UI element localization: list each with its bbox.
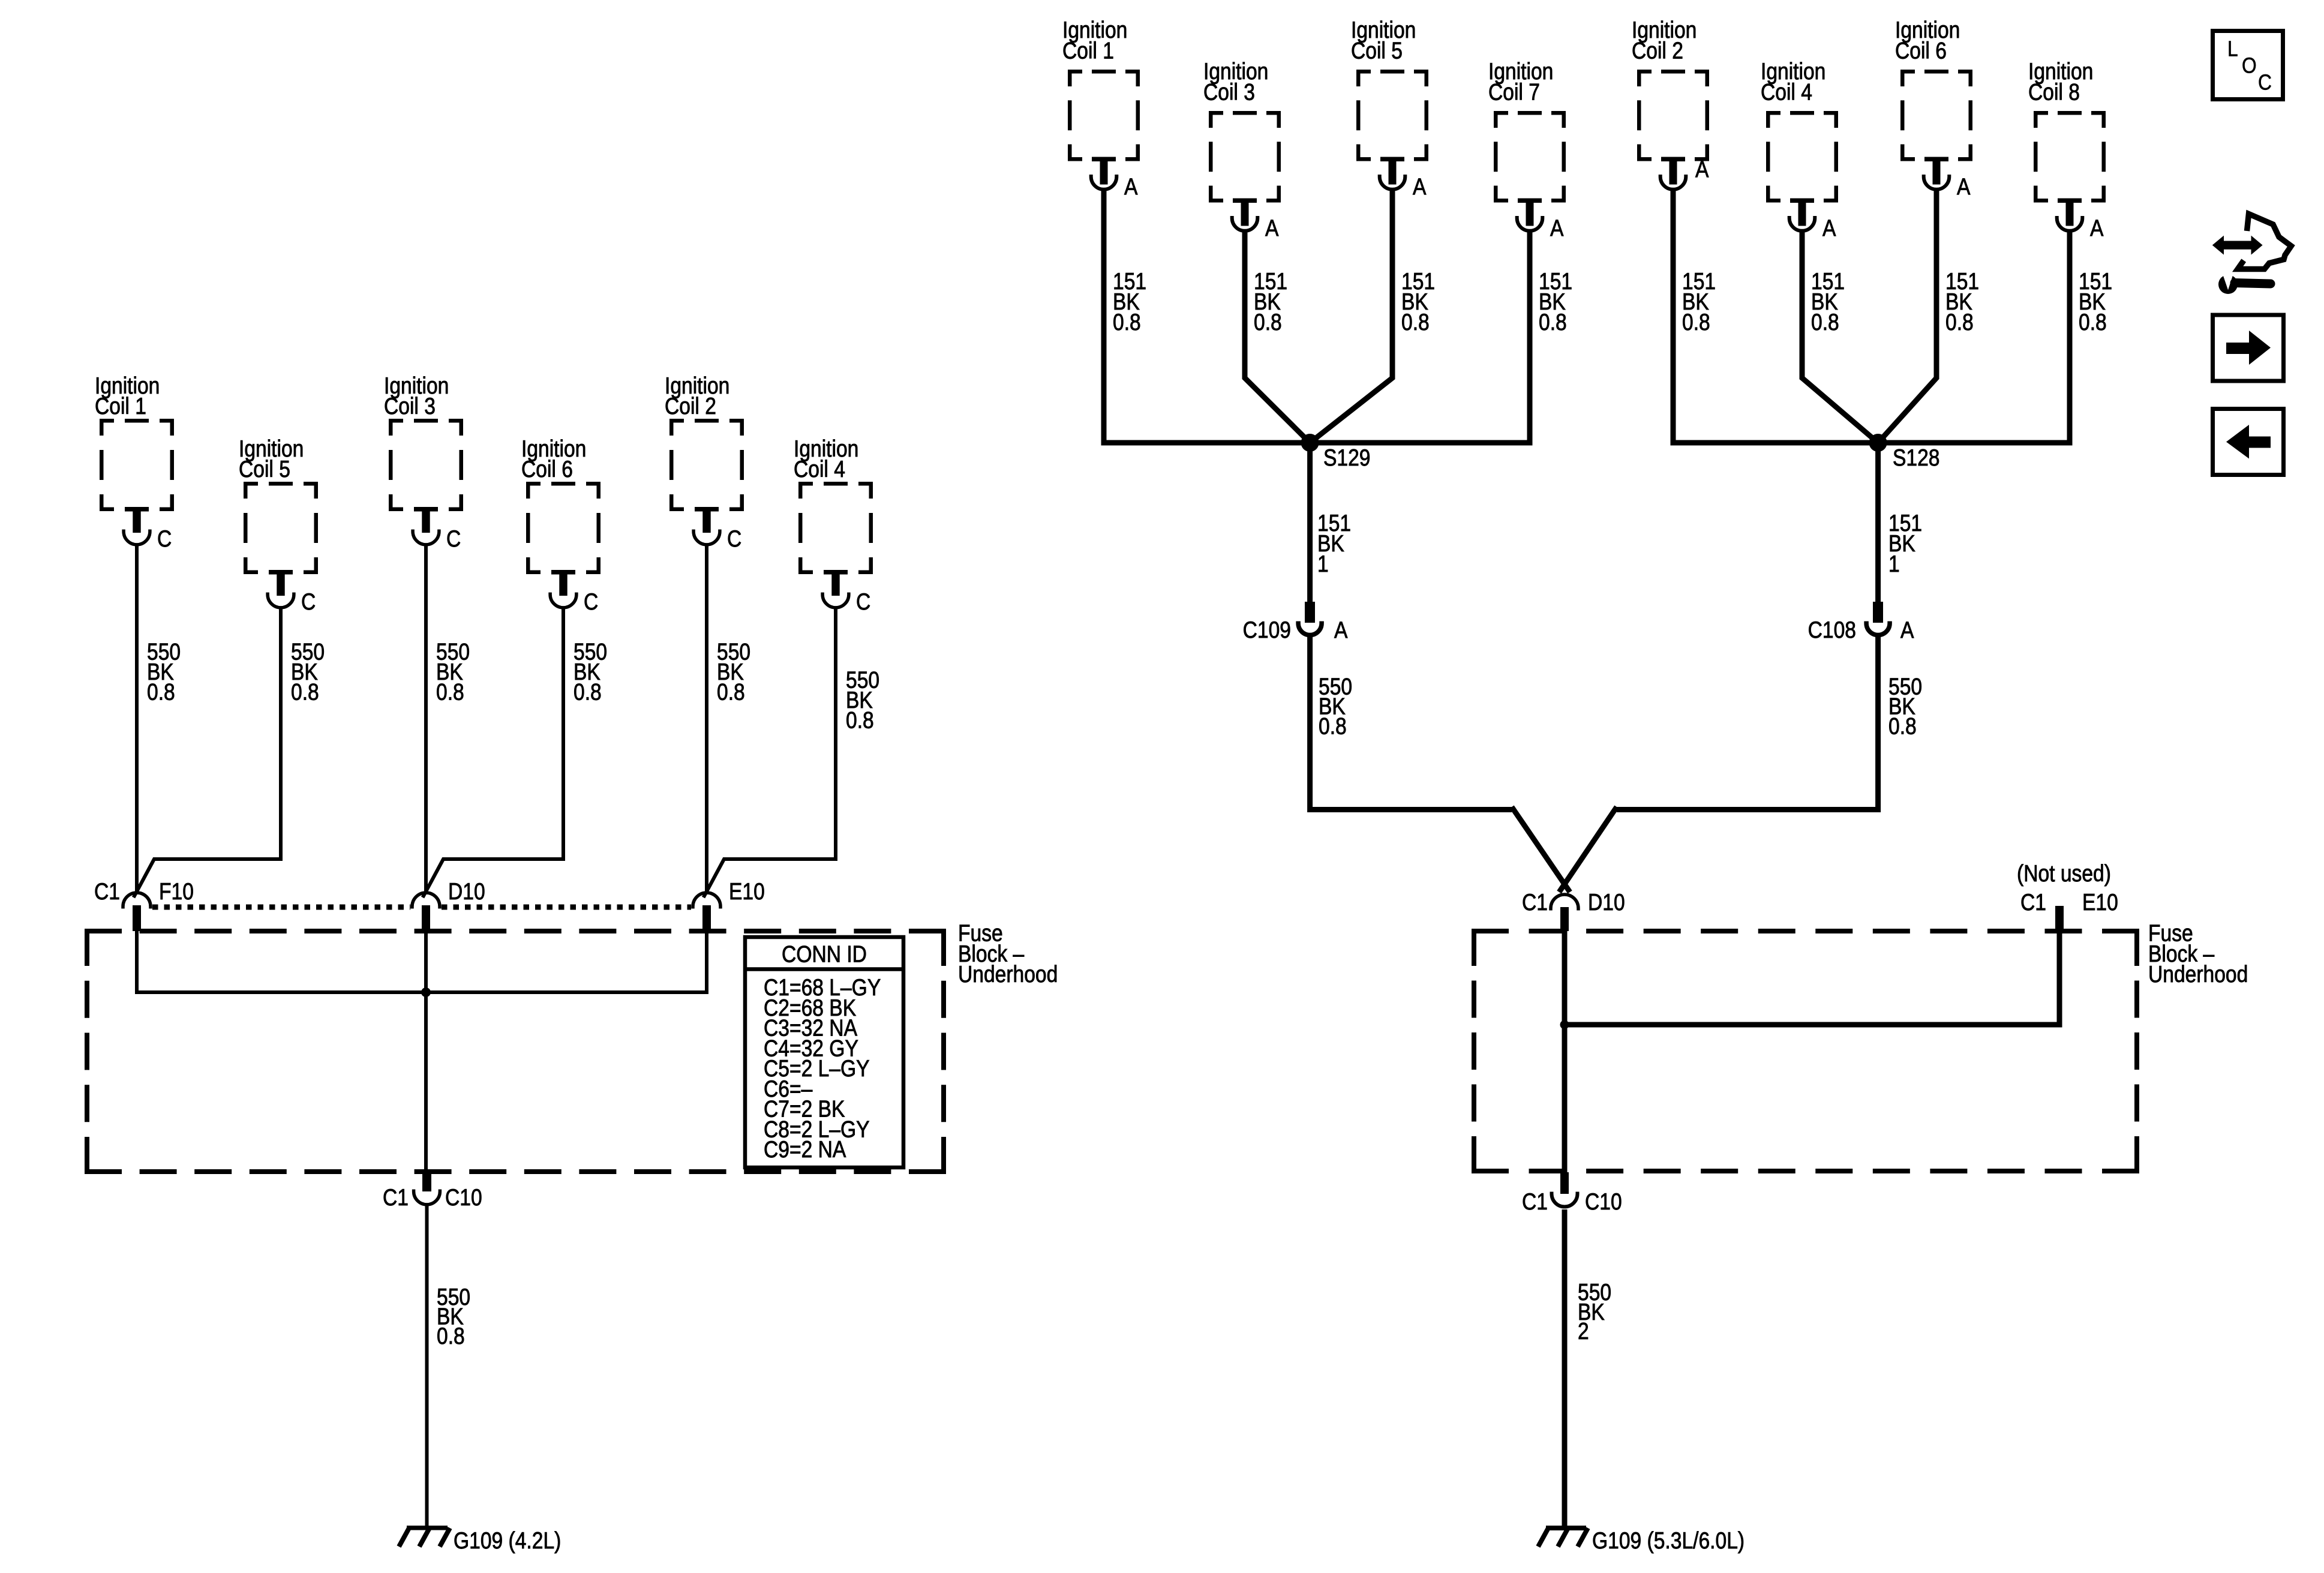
wire coil2 151 BK to S128 bus [1673, 189, 2070, 443]
svg-text:A: A [1695, 156, 1709, 182]
service icon outline [2238, 214, 2291, 269]
svg-text:D10: D10 [1588, 889, 1625, 915]
svg-text:(Not used): (Not used) [2017, 860, 2111, 887]
svg-text:C1: C1 [1522, 1188, 1548, 1215]
svg-text:Coil 4: Coil 4 [794, 456, 845, 482]
svg-text:0.8: 0.8 [574, 679, 602, 705]
wire coil6 550 BK to D10 [423, 607, 563, 897]
svg-text:Coil 6: Coil 6 [1895, 37, 1947, 64]
ignition coil 3 (V8) box [1209, 111, 1281, 203]
wire diagonal into D10 (right branch) [1559, 807, 1617, 892]
wire coil4 151 BK diagonal to S128 [1802, 230, 1878, 443]
ignition coil 6 (4.2L) terminal C [550, 593, 577, 608]
svg-text:C9=2 NA: C9=2 NA [764, 1136, 846, 1163]
ignition coil 2 (4.2L) pin [695, 507, 719, 512]
ignition coil 3 (4.2L) box [389, 419, 463, 511]
ignition coil 1 (4.2L) pin [125, 507, 149, 512]
svg-text:C: C [301, 589, 316, 615]
splice S128 [1869, 434, 1887, 452]
node E10 pin [702, 905, 711, 931]
back arrow box [2213, 409, 2284, 475]
ignition coil 2 (V8) pin [1661, 157, 1685, 162]
svg-text:S128: S128 [1893, 445, 1939, 471]
svg-text:F10: F10 [159, 878, 194, 905]
ignition coil 4 (V8) pin [1790, 199, 1814, 203]
svg-text:C: C [856, 589, 870, 615]
ignition coil 2 (V8) terminal A [1661, 175, 1686, 190]
svg-text:C108: C108 [1808, 617, 1856, 643]
svg-text:0.8: 0.8 [1539, 309, 1567, 335]
ignition coil 2 (4.2L) terminal C [693, 530, 720, 545]
svg-text:Coil 3: Coil 3 [384, 393, 436, 419]
svg-text:A: A [1265, 215, 1279, 241]
svg-text:O: O [2242, 53, 2257, 78]
svg-text:C10: C10 [445, 1184, 482, 1211]
svg-text:E10: E10 [729, 878, 765, 905]
svg-text:2: 2 [1578, 1318, 1589, 1344]
svg-text:0.8: 0.8 [1319, 713, 1347, 739]
connector C1 terminal F10 [123, 893, 151, 909]
svg-text:1: 1 [1317, 551, 1329, 577]
svg-text:G109 (5.3L/6.0L): G109 (5.3L/6.0L) [1592, 1527, 1744, 1554]
ignition coil 4 (V8) terminal A [1789, 216, 1815, 231]
svg-text:A: A [1413, 173, 1427, 200]
svg-text:Underhood: Underhood [2148, 961, 2248, 987]
svg-text:C1: C1 [383, 1184, 409, 1211]
wire coil5 550 BK to F10 [134, 607, 281, 897]
wire 151 BK 1 from S129 to C109 [1307, 443, 1313, 602]
svg-text:0.8: 0.8 [147, 679, 175, 705]
svg-text:Coil 3: Coil 3 [1203, 79, 1255, 105]
wire diagonal into D10 (left branch) [1512, 807, 1570, 892]
svg-text:0.8: 0.8 [437, 1323, 465, 1349]
ignition coil 6 (V8) pin [1924, 157, 1948, 162]
svg-text:0.8: 0.8 [2079, 309, 2107, 335]
ignition coil 1 (4.2L) terminal C [124, 530, 150, 545]
connector face dotted line [152, 905, 410, 910]
wire coil2 550 BK to E10 [705, 544, 708, 893]
ignition coil 7 (V8) pin [1518, 199, 1542, 203]
connector C1 terminal D10 [412, 893, 440, 909]
svg-text:C: C [2258, 70, 2272, 95]
svg-text:A: A [1822, 215, 1836, 241]
svg-text:Coil 1: Coil 1 [1062, 37, 1114, 64]
connector C1 terminal E10 [693, 893, 720, 909]
forward arrow [2226, 331, 2271, 365]
ignition coil 4 (4.2L) terminal C [822, 593, 849, 608]
svg-text:CONN ID: CONN ID [782, 941, 867, 967]
svg-text:0.8: 0.8 [1401, 309, 1430, 335]
ignition coil 5 (4.2L) terminal C [268, 593, 294, 608]
svg-text:Coil 2: Coil 2 [1632, 37, 1683, 64]
ignition coil 3 (V8) terminal A [1232, 216, 1258, 231]
wire coil1 550 BK to F10 [135, 544, 139, 893]
svg-text:C1: C1 [1522, 889, 1548, 915]
wire coil3 151 BK diagonal to S129 [1245, 230, 1310, 443]
ignition coil 6 (V8) box [1900, 70, 1972, 161]
svg-text:A: A [1334, 617, 1348, 643]
connector C1 terminal C10 (left) [422, 1172, 431, 1191]
svg-text:0.8: 0.8 [846, 707, 874, 733]
ignition coil 3 (4.2L) pin [414, 507, 438, 512]
svg-text:A: A [1124, 173, 1138, 200]
node F10 pin [133, 905, 141, 931]
connector C109 terminal A [1305, 602, 1315, 623]
ignition coil 1 (V8) box [1068, 70, 1140, 161]
ignition coil 5 (4.2L) pin [269, 570, 293, 575]
ignition coil 7 (V8) terminal A [1517, 216, 1543, 231]
ignition coil 5 (V8) box [1356, 70, 1428, 161]
svg-text:0.8: 0.8 [1888, 713, 1917, 739]
node D10 pin [422, 905, 430, 931]
ignition coil 2 (4.2L) box [669, 419, 744, 511]
svg-text:0.8: 0.8 [1113, 309, 1141, 335]
wire bus to E10 riser [1565, 931, 2059, 1025]
ignition coil 5 (V8) pin [1380, 157, 1404, 162]
svg-text:Coil 1: Coil 1 [95, 393, 146, 419]
svg-text:S129: S129 [1323, 445, 1370, 471]
ignition coil 3 (4.2L) terminal C [413, 530, 439, 545]
svg-text:0.8: 0.8 [1945, 309, 1974, 335]
ground G109 (5.3L/6.0L) [1546, 1526, 1586, 1530]
ignition coil 5 (V8) terminal A [1380, 175, 1406, 190]
junction dot right fuse [1560, 1020, 1569, 1029]
svg-text:0.8: 0.8 [717, 679, 745, 705]
svg-text:Coil 7: Coil 7 [1488, 79, 1540, 105]
wire coil5 151 BK diagonal to S129 [1310, 189, 1392, 443]
forward arrow box [2213, 315, 2284, 381]
wire F10 to ground bus to E10 inside fuse block [137, 931, 707, 992]
service icon wrench [2218, 275, 2238, 294]
ignition coil 8 (V8) terminal A [2057, 216, 2083, 231]
fuse block - underhood (left) dashed box [85, 929, 946, 1174]
wire 550 BK 0.8 from C108 [1617, 637, 1878, 810]
svg-text:Coil 6: Coil 6 [521, 456, 573, 482]
ignition coil 8 (V8) box [2034, 111, 2106, 203]
back arrow [2226, 425, 2271, 459]
svg-text:L: L [2227, 37, 2238, 61]
svg-text:0.8: 0.8 [1254, 309, 1282, 335]
svg-text:A: A [1550, 215, 1564, 241]
ignition coil 7 (V8) box [1494, 111, 1566, 203]
svg-text:C: C [446, 526, 461, 552]
wire 550 BK 0.8 from C109 [1310, 637, 1512, 810]
CONN ID table [745, 937, 903, 1167]
svg-text:A: A [1900, 617, 1914, 643]
ignition coil 4 (4.2L) box [798, 482, 873, 574]
node E10 pin (not used) [2055, 906, 2064, 931]
ignition coil 4 (4.2L) pin [824, 570, 848, 575]
wire coil1 151 BK to S129 bus [1104, 189, 1530, 443]
svg-text:Coil 8: Coil 8 [2028, 79, 2080, 105]
ignition coil 2 (V8) box [1637, 70, 1709, 161]
ignition coil 1 (V8) pin [1092, 157, 1116, 162]
wire 151 BK 1 from S128 to C108 [1875, 443, 1881, 602]
wire 550 BK 0.8 to ground [425, 1205, 429, 1527]
svg-text:E10: E10 [2082, 889, 2118, 915]
connector C1 terminal D10 (right) [1551, 894, 1578, 911]
fuse block - underhood (right) dashed box [1472, 929, 2139, 1173]
wire coil6 151 BK diagonal to S128 [1878, 189, 1936, 443]
svg-text:Coil 2: Coil 2 [665, 393, 716, 419]
ignition coil 4 (V8) box [1766, 111, 1838, 203]
LOC reference box [2213, 31, 2283, 100]
svg-text:C10: C10 [1585, 1188, 1622, 1215]
svg-text:A: A [2090, 215, 2104, 241]
wire D10 to bus junction [1562, 931, 1568, 1173]
junction bus dot [421, 987, 431, 997]
svg-text:1: 1 [1888, 551, 1900, 577]
connector C108 terminal A [1873, 602, 1883, 623]
ground G109 (4.2L) [407, 1526, 448, 1530]
ignition coil 6 (4.2L) pin [551, 570, 575, 575]
svg-text:Coil 5: Coil 5 [1351, 37, 1403, 64]
wire D10 through fuse block [424, 931, 428, 1173]
ignition coil 1 (4.2L) box [100, 419, 174, 511]
svg-text:G109 (4.2L): G109 (4.2L) [454, 1527, 561, 1554]
svg-text:D10: D10 [448, 878, 485, 905]
wire coil3 550 BK to D10 [424, 544, 428, 893]
ignition coil 5 (4.2L) box [244, 482, 318, 574]
ignition coil 6 (4.2L) box [526, 482, 600, 574]
svg-text:C109: C109 [1243, 617, 1291, 643]
svg-text:C1: C1 [94, 878, 120, 905]
splice S129 [1301, 434, 1319, 452]
ignition coil 6 (V8) terminal A [1924, 175, 1950, 190]
svg-text:C1: C1 [2020, 889, 2046, 915]
ignition coil 1 (V8) terminal A [1091, 175, 1117, 190]
wire 550 BK 2 to ground [1562, 1209, 1568, 1527]
svg-text:0.8: 0.8 [1811, 309, 1839, 335]
svg-text:A: A [1957, 173, 1971, 200]
svg-text:0.8: 0.8 [291, 679, 319, 705]
wire coil4 550 BK to E10 [704, 607, 836, 897]
ignition coil 8 (V8) pin [2058, 199, 2082, 203]
connector C1 terminal C10 (right) [1560, 1172, 1569, 1194]
svg-text:Coil 4: Coil 4 [1761, 79, 1812, 105]
svg-text:C: C [727, 526, 741, 552]
svg-text:Coil 5: Coil 5 [239, 456, 290, 482]
service icon double arrow [2212, 236, 2263, 255]
svg-text:C: C [584, 589, 598, 615]
svg-text:C: C [157, 526, 172, 552]
svg-text:0.8: 0.8 [1682, 309, 1710, 335]
svg-text:0.8: 0.8 [436, 679, 464, 705]
ignition coil 3 (V8) pin [1233, 199, 1257, 203]
svg-text:Underhood: Underhood [958, 961, 1058, 987]
